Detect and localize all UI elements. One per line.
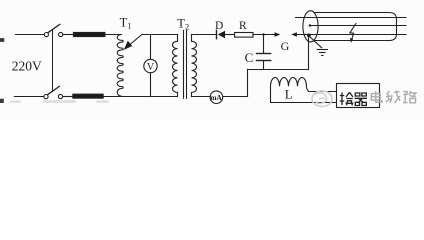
svg-text:L: L <box>285 87 293 102</box>
box text glyph 1 (dense CJK-like) <box>340 92 353 105</box>
svg-text:T2: T2 <box>177 17 189 32</box>
capacitor C <box>257 54 271 61</box>
svg-text:R: R <box>239 20 247 32</box>
watermark char lu <box>403 91 416 103</box>
watermark logo <box>312 91 332 107</box>
milliammeter mA <box>210 91 223 104</box>
diode D <box>217 30 226 38</box>
fault lightning arrow <box>350 24 356 43</box>
box text glyph 2 (dense CJK-like) <box>355 93 367 106</box>
wire bottom: fuse to T2 <box>103 96 177 98</box>
wire: wiper junction to T2 primary <box>142 34 178 36</box>
transformer T2 secondary winding <box>192 35 197 97</box>
voltmeter V lower lead <box>150 73 152 97</box>
cable conductor middle <box>310 25 406 27</box>
wire: mA to riser <box>223 96 248 98</box>
switch S bottom pole <box>44 86 63 98</box>
transformer T1 variac winding <box>117 35 123 97</box>
svg-text:T1: T1 <box>120 16 132 31</box>
svg-text:C: C <box>245 50 254 65</box>
resistor R <box>235 33 253 38</box>
wire top lead-in from 220V source <box>16 34 45 36</box>
wire bottom lead-in from 220V source <box>14 96 43 98</box>
node at C junction <box>262 33 264 35</box>
wire fuse to T1 top <box>105 34 122 36</box>
cable cylinder body <box>314 13 397 41</box>
inductor L pickup coil <box>271 78 337 103</box>
T1 wiper arrow <box>124 35 142 50</box>
wire switch to fuse bottom <box>63 96 73 98</box>
node at cable core <box>309 24 311 26</box>
spark gap left arrow (pointing right) <box>275 32 281 37</box>
watermark char dian <box>371 91 382 102</box>
capacitor C lower lead <box>263 61 265 70</box>
svg-text:V: V <box>147 62 155 73</box>
switch mechanical link <box>52 29 54 91</box>
svg-text:220V: 220V <box>12 59 42 74</box>
watermark char xian <box>386 90 401 103</box>
wire: horizontal return at y69.5 <box>248 69 309 71</box>
fuse FU1 <box>73 32 105 36</box>
transformer T2 core <box>183 31 185 99</box>
wire: T2 secondary top to diode <box>192 34 217 36</box>
wire: R to spark gap, with C junction <box>253 34 276 36</box>
cable conductor bottom (continues from spark gap wire) <box>296 34 406 36</box>
edge mark left bottom <box>0 99 4 103</box>
edge mark left top <box>0 38 4 42</box>
node at sheath junction <box>307 34 311 38</box>
voltmeter V <box>144 59 157 72</box>
transformer T2 primary winding <box>173 35 178 97</box>
cable conductor top <box>296 17 407 19</box>
faint bottom watermark remnants <box>10 100 109 103</box>
svg-text:G: G <box>281 39 290 53</box>
spark gap right arrow (pointing left) <box>291 32 297 37</box>
detector instrument box <box>337 84 380 108</box>
ground branch diagonal <box>310 37 322 48</box>
voltmeter V branch upper lead <box>150 35 152 60</box>
wire: diode to R <box>225 34 235 36</box>
wire: T2 secondary bottom to mA <box>192 96 211 98</box>
svg-text:D: D <box>215 20 223 32</box>
svg-text:mA: mA <box>210 93 222 102</box>
ground <box>317 50 327 56</box>
capacitor C upper lead <box>263 35 265 54</box>
wire switch to fuse top <box>63 34 74 36</box>
switch S top pole <box>44 24 63 36</box>
wire: riser down to mA line <box>247 70 249 97</box>
cable end sheath ellipse <box>303 11 318 42</box>
fuse FU2 <box>73 94 104 98</box>
wire: sheath junction down <box>308 35 310 69</box>
